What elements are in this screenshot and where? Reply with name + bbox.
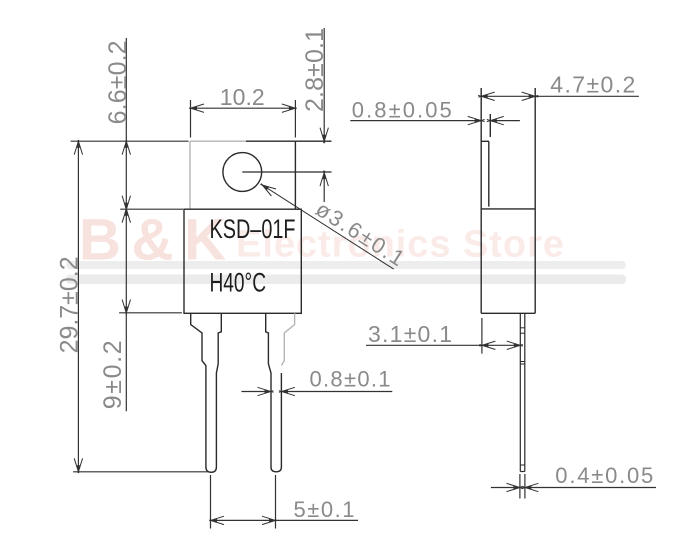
front view label H40C — [210, 268, 267, 298]
svg-text:29.7±0.2: 29.7±0.2 — [56, 256, 84, 353]
dim 4.7 text — [550, 71, 635, 97]
dim 0.8 tab tail right — [490, 120, 520, 122]
watermark Electronics Store — [236, 224, 564, 266]
extension line tab-top right — [295, 140, 331, 142]
svg-text:0.4±0.05: 0.4±0.05 — [555, 463, 653, 488]
dim 2.8 arrow down — [320, 128, 328, 144]
extension line body-top left — [120, 208, 183, 210]
svg-text:H40°C: H40°C — [210, 268, 267, 298]
dim 2.8 line upper — [323, 28, 325, 141]
dim 10.2 extension lines — [191, 100, 296, 138]
side view lead joint ticks — [520, 328, 525, 465]
extension line lead-tip bottom — [73, 471, 208, 473]
dim 0.8 lead tail right — [281, 391, 392, 393]
dim 0.4 extension lines — [520, 474, 525, 499]
dim 0.4 arrow left — [521, 483, 538, 491]
dim 0.8 tab text — [352, 98, 452, 123]
side view notch line — [481, 140, 489, 142]
dim 3.1 extension line — [481, 318, 483, 354]
front view label KSD-01F — [210, 214, 296, 244]
side view left edge — [480, 88, 482, 313]
dim 0.8 tab arrow left — [487, 116, 504, 124]
extension line body-bottom left — [119, 312, 182, 314]
svg-text:2.8±0.1: 2.8±0.1 — [301, 28, 329, 112]
side view body top — [481, 208, 535, 210]
dim 5 text — [294, 497, 355, 522]
front view tab outline (black top-right/right) — [246, 141, 295, 209]
dim 9 arrow down at body bottom — [122, 300, 130, 315]
leader text dia 3.6 — [311, 196, 409, 271]
svg-text:9±0.2: 9±0.2 — [99, 340, 127, 409]
dim 6.6 text — [104, 40, 132, 124]
watermark gray stripe 1 — [66, 261, 626, 269]
svg-text:KSD–01F: KSD–01F — [210, 214, 296, 244]
dim 0.4 tail right — [525, 487, 656, 489]
dim 0.8 tab tail left — [350, 120, 481, 122]
side view lead — [520, 313, 525, 471]
svg-text:3.1±0.1: 3.1±0.1 — [368, 321, 452, 347]
dim 2.8 text — [301, 28, 329, 112]
side view right edge — [534, 88, 536, 313]
front view right lead right edge (gray) — [281, 313, 294, 365]
dim 10.2 text — [220, 84, 265, 110]
dim 29.7 arrows — [74, 140, 82, 473]
dim 0.8 lead tail left — [241, 391, 271, 393]
dim 29.7 text — [56, 256, 84, 353]
side view metal tab inner line upper — [489, 114, 491, 137]
front view left lead — [191, 313, 222, 472]
leader line dia 3.6 — [262, 185, 393, 269]
svg-text:10.2: 10.2 — [220, 84, 265, 110]
dim 4.7 line — [481, 95, 639, 97]
watermark B&K — [79, 208, 226, 273]
dim 5 extension lines — [211, 475, 276, 529]
dim 6.6 arrow up at tab top — [122, 140, 130, 155]
watermark gray stripe 2 — [66, 275, 626, 285]
dim 6.6/9 line — [125, 38, 127, 411]
svg-text:0.8±0.1: 0.8±0.1 — [310, 366, 391, 391]
dim 0.4 text — [555, 463, 653, 488]
front view right lead (black part) — [266, 313, 282, 472]
dim 2.8 line lower — [323, 173, 325, 202]
dim 6.6/9 arrows at body top — [122, 196, 130, 223]
svg-text:5±0.1: 5±0.1 — [294, 497, 355, 522]
dim 5 line — [211, 519, 359, 521]
dim 4.7 arrows — [478, 92, 538, 100]
dim 0.8 tab arrow right — [468, 116, 485, 124]
svg-text:6.6±0.2: 6.6±0.2 — [104, 40, 132, 124]
dim 3.1 line — [366, 344, 520, 346]
side view body bottom — [481, 312, 535, 314]
dim 5 arrows — [209, 516, 276, 524]
leader arrow dia 3.6 — [260, 184, 276, 197]
dim 2.8 arrow up — [320, 171, 328, 187]
hole centerline — [242, 171, 331, 173]
front view tab outline (gray left/top-left) — [190, 141, 246, 209]
dim 0.8 lead text — [310, 366, 391, 391]
extension line tab-top left — [71, 140, 189, 142]
side view metal tab inner line lower — [488, 141, 490, 206]
dim 10.2 arrows — [189, 104, 296, 112]
dim 0.8 lead arrow left — [279, 387, 295, 395]
front view mounting hole — [223, 153, 262, 192]
dim 3.1 arrows — [479, 341, 522, 349]
dim 3.1 text — [368, 321, 452, 347]
svg-text:4.7±0.2: 4.7±0.2 — [550, 71, 635, 97]
dim 0.4 arrow right — [506, 483, 523, 491]
front view body rectangle — [184, 209, 301, 313]
dim 0.8 lead arrow right — [258, 387, 274, 395]
dim 29.7 line — [77, 141, 79, 472]
dim 0.4 tail left — [491, 487, 520, 489]
dim 10.2 line — [191, 107, 296, 109]
dim 9 text — [99, 340, 127, 409]
svg-text:0.8±0.05: 0.8±0.05 — [352, 98, 452, 123]
